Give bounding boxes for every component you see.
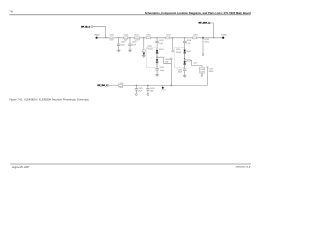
svg-text:Schematics, Component Location: Schematics, Component Location Diagrams,… xyxy=(145,11,251,15)
svg-text:C6503: C6503 xyxy=(165,59,170,61)
svg-text:L6505: L6505 xyxy=(205,39,210,41)
node J7 xyxy=(213,37,214,38)
ground stage2 xyxy=(183,76,187,78)
svg-text:D6502: D6502 xyxy=(186,51,191,53)
resistor R6500 shunt xyxy=(142,38,145,56)
svg-text:6.8pF: 6.8pF xyxy=(121,45,125,47)
svg-text:E6501: E6501 xyxy=(205,42,210,44)
capacitor C6501 series xyxy=(124,35,129,42)
svg-text:39pF: 39pF xyxy=(165,61,169,63)
inductor L6501 series xyxy=(134,35,140,42)
svg-text:1.5pF: 1.5pF xyxy=(193,63,197,65)
test point TP6500 xyxy=(94,35,100,39)
node J1 xyxy=(105,37,106,38)
capacitor C6513 shunt lower xyxy=(135,85,144,95)
svg-text:8.2pF: 8.2pF xyxy=(132,45,136,47)
svg-text:L6507: L6507 xyxy=(209,69,214,71)
wire main line xyxy=(97,37,224,39)
shield box stage1 xyxy=(146,46,156,68)
svg-text:RX_INJ_C: RX_INJ_C xyxy=(97,85,108,87)
svg-text:C6515: C6515 xyxy=(150,88,155,90)
inductor L6500 xyxy=(109,35,114,42)
node J4 xyxy=(143,37,144,38)
capacitor C6511 xyxy=(178,69,187,75)
node output post xyxy=(202,37,204,39)
svg-text:6881096C74-B: 6881096C74-B xyxy=(236,166,251,168)
svg-text:2.2pF: 2.2pF xyxy=(119,87,123,89)
svg-text:100pF: 100pF xyxy=(178,71,183,73)
svg-text:C6506: C6506 xyxy=(193,35,198,37)
test point TP6502 lower xyxy=(161,85,166,91)
wire stage2 coupling jog xyxy=(192,60,202,67)
node J3 xyxy=(129,37,130,38)
node between varactors stage1 xyxy=(157,57,158,58)
capacitor C6508 xyxy=(183,38,191,50)
varactor D6503 xyxy=(184,59,186,69)
ground xyxy=(142,56,146,58)
varactor D6501 xyxy=(156,57,158,68)
svg-text:C6502: C6502 xyxy=(132,42,137,44)
capacitor C6500 shunt xyxy=(117,38,126,50)
node L1 xyxy=(136,85,137,86)
capacitor C6505 xyxy=(155,38,163,50)
svg-text:C6507: C6507 xyxy=(186,60,191,62)
svg-text:TP6502: TP6502 xyxy=(161,90,166,92)
svg-text:1.0pF: 1.0pF xyxy=(159,43,163,45)
header rule xyxy=(9,14,250,16)
varactor D6500 xyxy=(156,49,164,57)
coupling post circle stage1 xyxy=(170,58,172,60)
svg-text:L6504: L6504 xyxy=(176,49,181,51)
svg-text:August 25, 2007: August 25, 2007 xyxy=(12,166,30,169)
svg-text:C6508: C6508 xyxy=(186,40,191,42)
svg-text:82nH: 82nH xyxy=(110,39,115,41)
capacitor C6515 shunt lower xyxy=(146,85,155,95)
node mid post xyxy=(172,37,173,38)
svg-text:Figure 7-61. XLE4580H / XLE45: Figure 7-61. XLE4580H / XLE4580H Receive… xyxy=(9,98,89,102)
ground xyxy=(117,50,121,52)
svg-text:C6501: C6501 xyxy=(124,35,129,37)
node J5 stage1 xyxy=(157,37,158,38)
svg-text:18pF: 18pF xyxy=(138,91,142,93)
svg-text:FL6501: FL6501 xyxy=(176,52,182,54)
svg-text:1: 1 xyxy=(151,58,152,60)
svg-text:RF_IN_C: RF_IN_C xyxy=(81,27,90,29)
svg-text:C6504: C6504 xyxy=(146,35,151,37)
svg-text:TP6501: TP6501 xyxy=(221,34,227,36)
inductor L6506 box xyxy=(199,67,205,76)
svg-text:TP6500: TP6500 xyxy=(94,35,100,37)
capacitor C6510 xyxy=(155,67,164,75)
svg-text:L6500: L6500 xyxy=(110,35,115,37)
svg-text:C6505: C6505 xyxy=(159,40,164,42)
svg-text:C6510: C6510 xyxy=(160,67,165,69)
svg-text:1.0pF: 1.0pF xyxy=(186,43,190,45)
footer rule xyxy=(10,163,251,165)
capacitor C6502 shunt xyxy=(128,38,137,50)
wire lower line xyxy=(109,84,207,86)
connector RX_INJ_C xyxy=(97,84,108,87)
svg-text:C6511: C6511 xyxy=(178,69,183,71)
svg-text:120nH: 120nH xyxy=(135,39,141,41)
capacitor C6514 series xyxy=(166,35,171,39)
svg-text:100pF: 100pF xyxy=(160,70,165,72)
test point TP6501 xyxy=(221,34,227,39)
resonator post mid xyxy=(172,38,174,52)
node between varactors stage2 xyxy=(184,58,185,59)
node J6 stage2 xyxy=(184,37,185,38)
capacitor C6506 series xyxy=(193,35,198,39)
svg-text:L6502: L6502 xyxy=(147,46,152,48)
svg-text:C6513: C6513 xyxy=(138,88,143,90)
connector RF_IN_C xyxy=(81,26,93,29)
node J2 xyxy=(118,37,119,38)
wire RF_ANT lead xyxy=(211,23,214,38)
wire lower loop vertical xyxy=(206,67,213,85)
shield box stage2 xyxy=(174,47,184,68)
capacitor C6512 series lower xyxy=(118,83,123,89)
svg-text:7-8: 7-8 xyxy=(9,11,13,14)
svg-text:39pF: 39pF xyxy=(150,91,154,93)
svg-text:E6502: E6502 xyxy=(209,71,214,73)
svg-text:L6501: L6501 xyxy=(134,35,139,37)
capacitor C6504 series xyxy=(146,35,151,39)
wire RF_IN lead xyxy=(93,27,106,38)
svg-text:FL6500: FL6500 xyxy=(148,49,154,51)
ground stage1 xyxy=(155,75,159,77)
svg-text:C6514: C6514 xyxy=(166,35,171,37)
node L3 xyxy=(171,85,172,86)
wire stage1 coupling xyxy=(157,57,171,63)
label box C6507 on stage2 coupling wire xyxy=(185,59,192,62)
connector RF_ANT_C xyxy=(199,22,211,25)
node L2 xyxy=(147,85,148,86)
varactor D6502 xyxy=(184,50,192,59)
svg-text:15pF: 15pF xyxy=(124,39,128,41)
resonator post output xyxy=(202,38,209,56)
svg-text:L6506: L6506 xyxy=(200,69,205,71)
ground xyxy=(128,50,132,52)
svg-text:D6500: D6500 xyxy=(159,49,164,51)
svg-text:C6500: C6500 xyxy=(121,42,126,44)
wire long vertical to injection line xyxy=(170,60,172,86)
